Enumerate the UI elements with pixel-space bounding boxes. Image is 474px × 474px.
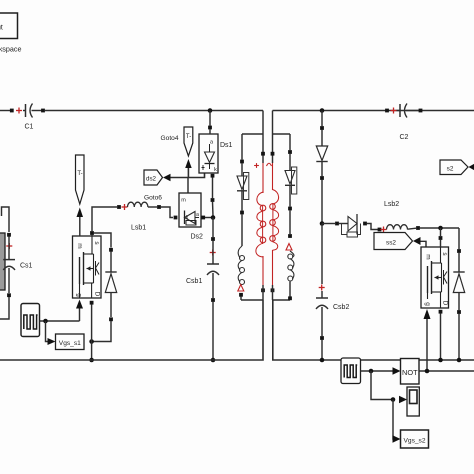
svg-text:Vgs_s2: Vgs_s2 — [404, 437, 426, 444]
node Ds3 junction — [320, 221, 325, 226]
wire to Ds3 junction — [321, 180, 323, 224]
svg-text:m: m — [181, 198, 186, 204]
goto tag Vgs_s1 — [56, 334, 85, 350]
red signal mark left branch — [238, 285, 244, 292]
svg-text:Csb2: Csb2 — [333, 304, 349, 311]
svg-text:g: g — [424, 302, 431, 306]
DC source block (clipped at left edge) — [0, 233, 5, 290]
wire ds2 to Ds2 gate — [171, 178, 189, 194]
diode D6 — [457, 249, 461, 253]
node D1/drain junction — [89, 339, 94, 344]
node: Ds1 branch junction — [208, 108, 213, 113]
node pulse1 branch — [43, 319, 48, 324]
wire m-port to T- tag — [79, 217, 81, 236]
node S2 drain rail — [438, 358, 443, 363]
svg-text:C2: C2 — [400, 134, 409, 141]
node delay branch — [391, 397, 396, 402]
svg-text:m: m — [425, 254, 432, 259]
svg-text:T-: T- — [186, 134, 191, 140]
wire right snubber top — [289, 134, 291, 150]
svg-text:Workspace: Workspace — [0, 45, 22, 54]
diode block Ds1 — [199, 134, 218, 173]
block unit delay — [407, 387, 419, 416]
mosfet S2 block — [421, 247, 449, 308]
from tag ds2 — [144, 170, 163, 185]
node D6 bottom rail — [457, 358, 462, 363]
capacitor Csb2 — [319, 287, 325, 289]
wire to Vgs_s1 — [46, 321, 49, 342]
mosfet S2 symbol — [427, 293, 429, 299]
wire Ds1 bottom chain — [211, 174, 215, 178]
wire Lsb1 to Ds2 — [161, 207, 173, 218]
wire right branch bottom join — [273, 299, 290, 301]
wire branch to Vgs_s2 — [393, 400, 394, 440]
transformer primary polarity mark — [254, 165, 259, 167]
wire S2 s-port up to Lsb2 node — [440, 228, 442, 236]
svg-text:a: a — [196, 212, 199, 218]
goto tag T- (S1 measurement) — [76, 155, 85, 204]
svg-text:m: m — [76, 243, 83, 248]
node NOT output branch — [425, 369, 430, 374]
svg-text:Vgs_s1: Vgs_s1 — [59, 340, 81, 347]
svg-text:s2: s2 — [447, 165, 454, 172]
svg-text:Csb1: Csb1 — [186, 278, 202, 285]
svg-text:out: out — [0, 25, 3, 32]
wire S2 drain to rail — [439, 310, 443, 314]
transformer secondary polarity mark — [267, 163, 272, 166]
wire to Csb2 — [321, 224, 323, 285]
block To Workspace (clipped at left edge) — [0, 13, 18, 39]
node Ds2/Csb1 junction — [211, 215, 216, 220]
svg-text:ds2: ds2 — [146, 175, 157, 182]
wire to left branch inductor — [241, 214, 243, 246]
svg-text:Lsb1: Lsb1 — [131, 225, 146, 232]
wire junction corner down right — [458, 228, 460, 249]
pulse generator 1 — [21, 304, 40, 337]
wire S1 source node — [90, 231, 94, 235]
from tag ss2 — [374, 233, 413, 250]
wire node to diode D1 — [94, 233, 111, 248]
wire Ds3 out to Lsb2 — [367, 224, 378, 230]
wire NOT output — [419, 370, 474, 372]
wire junction to Ds3 — [322, 223, 335, 225]
svg-text:Ds2: Ds2 — [191, 234, 204, 241]
diode left snubber — [241, 163, 243, 176]
transformer T1 secondary winding — [272, 111, 274, 164]
wire Cs1 bottom to source — [0, 297, 9, 319]
wire Ds1 top to rail — [208, 126, 212, 130]
wire gate up S1 — [79, 308, 81, 321]
wire branch to left snubber — [242, 133, 263, 135]
red signal mark right branch — [286, 244, 292, 251]
inductor right branch — [288, 254, 293, 259]
wire top rail right segment — [273, 110, 474, 112]
diode D5 — [321, 130, 323, 146]
mosfet S1 block — [73, 236, 102, 298]
wire right column top — [321, 111, 323, 127]
node Csb1 bottom rail — [211, 358, 216, 363]
wire top rail left segment — [0, 110, 11, 112]
capacitor Csb1 — [210, 252, 216, 254]
wire source top — [2, 207, 10, 232]
wire transformer leads bottom — [261, 288, 265, 292]
capacitor C1 — [16, 110, 22, 112]
wire S1 drain to bottom rail — [90, 301, 94, 305]
wire left snubber top — [241, 134, 243, 160]
svg-text:C1: C1 — [25, 124, 34, 131]
transformer T1 primary winding — [262, 163, 264, 193]
wire Lsb2 to diode branch — [420, 227, 459, 229]
wire bottom rail left — [0, 300, 263, 360]
svg-text:D: D — [442, 301, 449, 306]
wire ss2 to S2 m-port — [421, 241, 427, 247]
diode Ds3 with snubber — [339, 223, 348, 225]
inductor Lsb1 — [117, 205, 121, 209]
svg-text:Cs1: Cs1 — [20, 263, 33, 270]
pulse generator 2 — [341, 358, 361, 384]
node drain on bottom rail — [89, 358, 94, 363]
node pulse2 branch — [369, 369, 374, 374]
svg-text:Ds1: Ds1 — [220, 142, 233, 149]
wire left branch bottom join — [241, 299, 263, 301]
wire branch to delay — [371, 371, 393, 400]
mosfet S1 symbol — [79, 284, 81, 298]
wire pulse2 to NOT — [361, 370, 395, 372]
diode D1 (antiparallel S1) — [109, 248, 113, 252]
wire bottom rail right — [273, 300, 474, 360]
diode right snubber — [289, 154, 291, 171]
capacitor C2 — [385, 109, 389, 113]
svg-text:k: k — [214, 167, 217, 173]
diode block Ds2 — [179, 193, 201, 227]
inductor Lsb2 — [381, 229, 387, 231]
goto tag T- (Goto4) — [184, 127, 193, 156]
svg-text:Goto6: Goto6 — [144, 195, 162, 202]
wire transformer left lead from rail — [262, 111, 264, 164]
wire Csb2 to bottom rail — [321, 340, 323, 360]
node Csb2 bottom rail — [320, 358, 325, 363]
svg-text:T-: T- — [77, 171, 82, 177]
wire Csb1 top — [212, 218, 214, 238]
wire top rail to transformer — [45, 110, 263, 112]
svg-text:Lsb2: Lsb2 — [384, 201, 399, 208]
capacitor Cs1 — [7, 233, 11, 237]
logic NOT block — [401, 359, 420, 385]
goto tag Vgs_s2 — [401, 430, 429, 448]
wire Ds2 out to Csb1 node — [201, 216, 205, 220]
node: right diode branch junction — [320, 108, 325, 113]
goto tag s2 — [440, 160, 468, 175]
svg-text:NOT: NOT — [402, 368, 418, 377]
wire D1 bottom to S1 drain — [92, 321, 111, 342]
wire pulse1 to gate — [40, 320, 80, 322]
node Lsb2/S2 junction — [438, 226, 443, 231]
svg-text:Goto4: Goto4 — [161, 135, 179, 142]
svg-text:D: D — [94, 292, 101, 297]
wire S2 gate from NOT — [424, 309, 431, 319]
wire Csb1 to bottom rail — [212, 302, 214, 360]
inductor left branch — [240, 256, 245, 261]
svg-text:ss2: ss2 — [386, 239, 396, 246]
wire Ds1 out to Goto4 tag — [188, 168, 204, 178]
